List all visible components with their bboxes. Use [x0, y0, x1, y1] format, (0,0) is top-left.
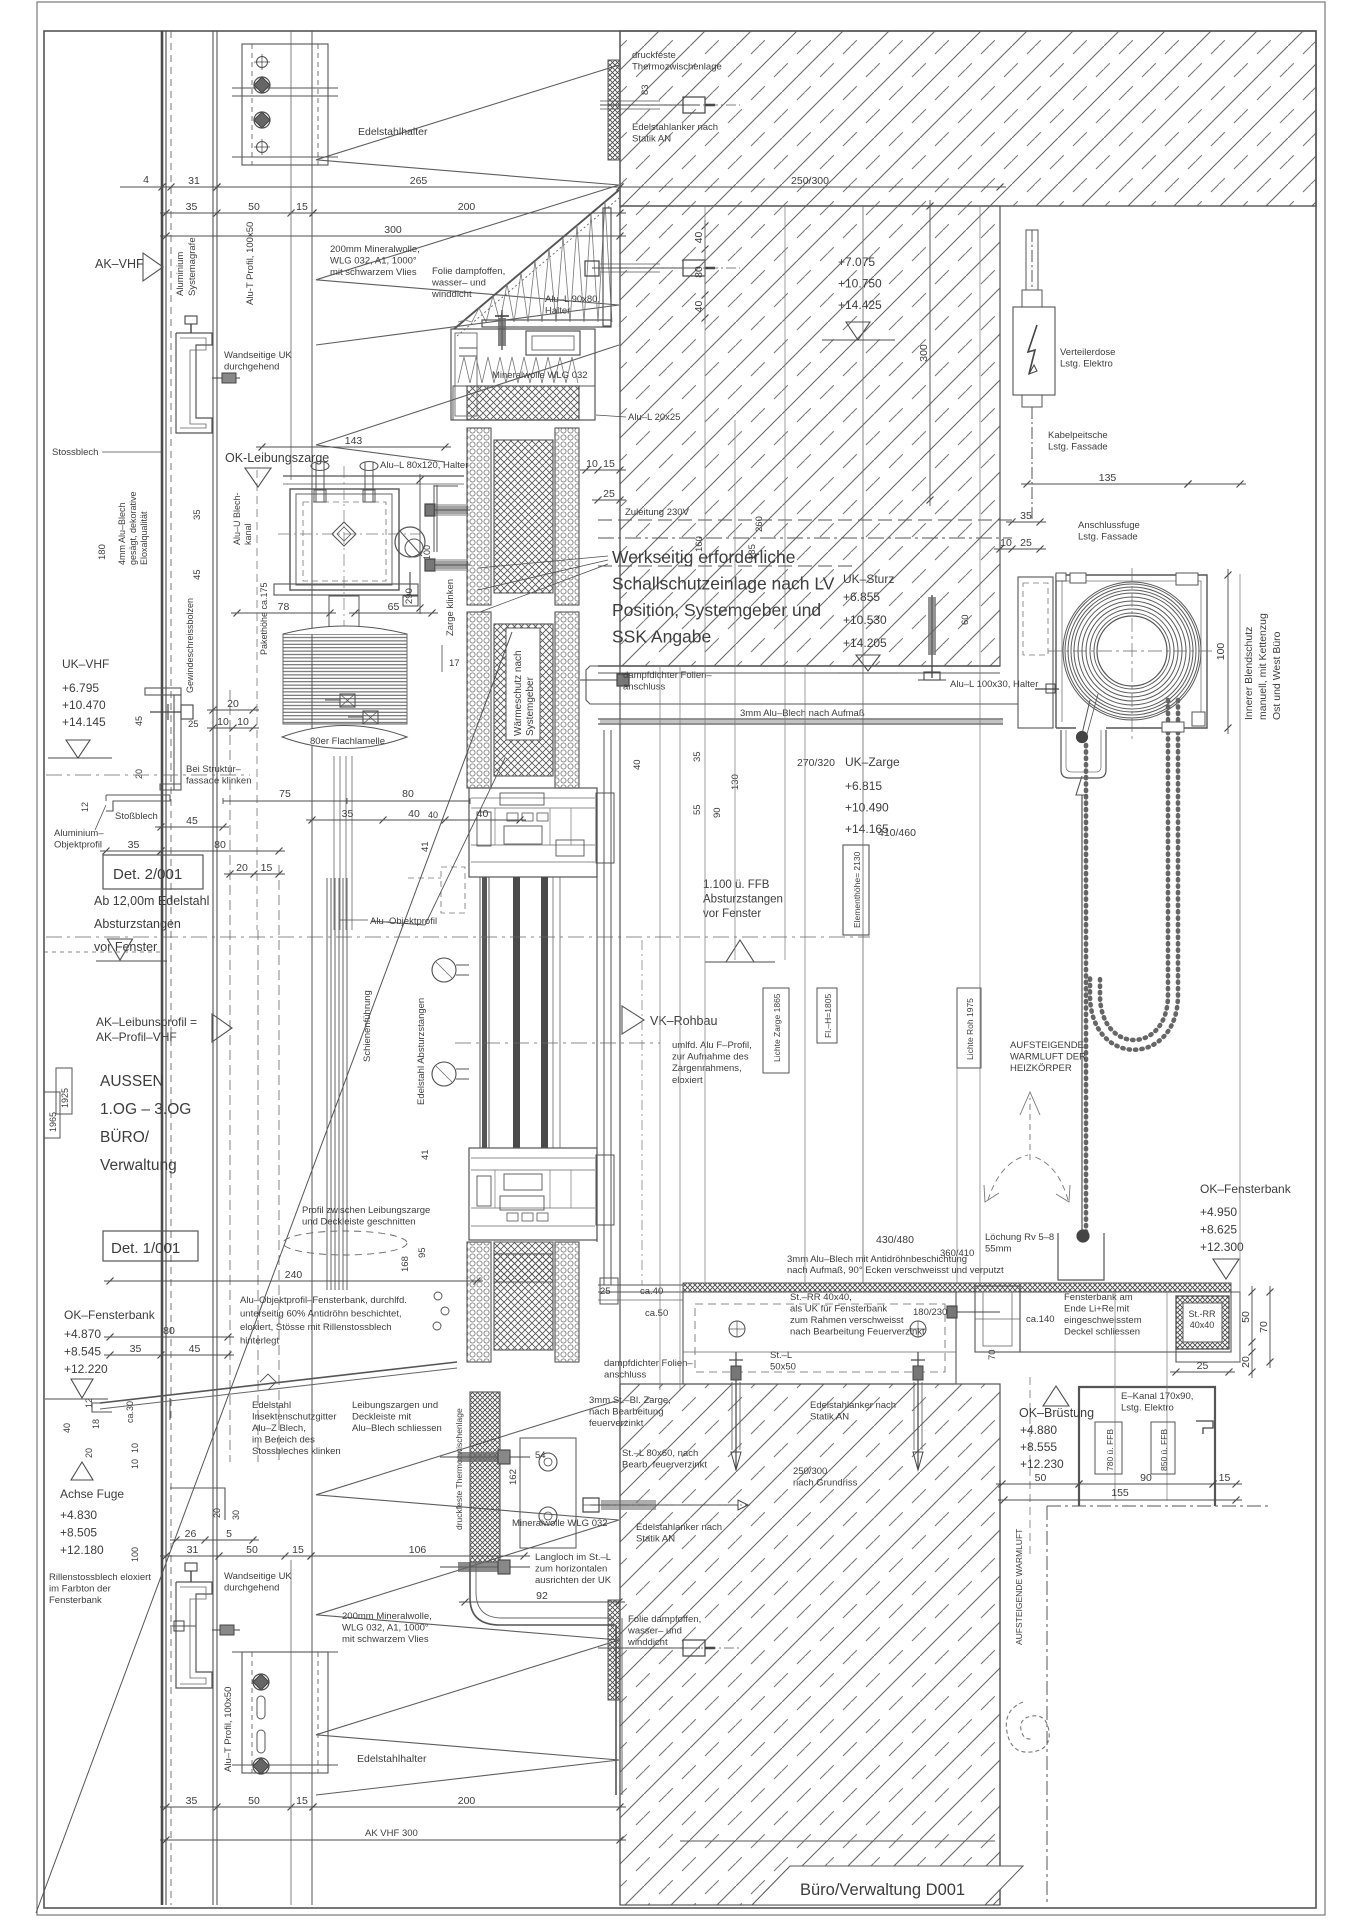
clamp detail right of box: [395, 527, 425, 557]
substructure depth line: [290, 31, 292, 480]
svg-text:41: 41: [420, 1149, 431, 1160]
svg-text:55: 55: [692, 804, 703, 815]
bracket bolts on zarge top: [311, 462, 329, 471]
svg-text:Alu–U Blech-: Alu–U Blech-: [232, 492, 242, 545]
svg-text:dampfdichter Folien–: dampfdichter Folien–: [623, 670, 712, 681]
svg-text:Fensterbank: Fensterbank: [49, 1595, 102, 1606]
screw through bracket plate: [501, 310, 503, 350]
svg-text:+6.815: +6.815: [845, 779, 882, 793]
svg-text:Alu–L 20x25: Alu–L 20x25: [628, 412, 680, 423]
svg-text:Löchung Rv 5–8: Löchung Rv 5–8: [985, 1232, 1054, 1243]
parapet cladding verticals: [615, 1625, 617, 1795]
svg-text:41: 41: [420, 841, 431, 852]
svg-text:Position, Systemgeber und: Position, Systemgeber und: [612, 600, 821, 620]
svg-text:Folie dampfoffen,: Folie dampfoffen,: [432, 266, 505, 277]
Det. 2/001 box: [103, 855, 203, 889]
dim 17: [441, 645, 443, 672]
lintel vertical dim 300: [929, 200, 931, 506]
sill left connection to window: [598, 1284, 683, 1286]
dim row 35/50/15: [160, 212, 319, 214]
svg-text:31: 31: [187, 1544, 199, 1556]
E-Kanal box: [1078, 1387, 1080, 1506]
svg-text:50: 50: [246, 1544, 258, 1556]
svg-text:410/460: 410/460: [878, 827, 916, 839]
svg-text:80er Flachlamelle: 80er Flachlamelle: [310, 736, 385, 747]
sill Alu-Blech hatched strip: [683, 1283, 1231, 1292]
svg-text:780 ü. FFB: 780 ü. FFB: [1105, 1429, 1115, 1471]
Absturzstange rod bottom: [432, 1062, 456, 1086]
svg-text:als UK für Fensterbank: als UK für Fensterbank: [790, 1304, 887, 1315]
svg-text:100: 100: [130, 1547, 140, 1562]
svg-text:250/300: 250/300: [791, 175, 829, 187]
svg-text:Verteilerdose: Verteilerdose: [1060, 347, 1115, 358]
svg-text:nach Aufmaß, 90° Ecken verschw: nach Aufmaß, 90° Ecken verschweisst und …: [787, 1265, 1004, 1276]
svg-text:5: 5: [226, 1528, 232, 1540]
leader fan: [478, 556, 608, 568]
VK-Rohbau: [622, 1006, 644, 1034]
svg-text:Bearb. feuerverzinkt: Bearb. feuerverzinkt: [622, 1460, 707, 1471]
soffit Alu-Blech band: [598, 665, 1000, 667]
svg-text:Edelstahlhalter: Edelstahlhalter: [357, 1753, 427, 1765]
frame anchor bolt right mid: [580, 679, 625, 681]
Edelstahlhalter bracket bottom: [242, 1652, 328, 1773]
threaded studs on zarge: [340, 694, 355, 707]
head bolt vertical: [931, 595, 933, 678]
dashed detail box left of frame: [441, 867, 465, 913]
Edelstahlanker top slab: [600, 104, 700, 106]
svg-text:Pakethöhe ca.175: Pakethöhe ca.175: [259, 582, 269, 655]
svg-text:75: 75: [279, 788, 291, 800]
svg-text:+12.300: +12.300: [1200, 1240, 1244, 1254]
Stossblech angle mid: [106, 795, 170, 811]
insulation boundary line: [311, 31, 313, 1905]
svg-text:Systemgeber: Systemgeber: [525, 676, 536, 736]
frame hard insulation core: [494, 1254, 553, 1350]
svg-text:80: 80: [214, 839, 226, 851]
svg-text:265: 265: [410, 175, 428, 187]
svg-text:20: 20: [134, 769, 144, 779]
Edelstahlhalter bracket top: [242, 44, 328, 165]
svg-text:200mm Mineralwolle,: 200mm Mineralwolle,: [342, 1611, 432, 1622]
dim 300: [160, 235, 626, 237]
svg-text:35: 35: [130, 1343, 142, 1355]
long diagonal leader line: [36, 632, 512, 1913]
svg-text:55mm: 55mm: [985, 1244, 1011, 1255]
svg-text:+4.880: +4.880: [1020, 1423, 1057, 1437]
frame anchor bolts left: [430, 509, 470, 511]
svg-text:45: 45: [134, 716, 144, 726]
cladding dashed joint line: [170, 31, 172, 1905]
svg-text:Elementhöhe= 2130: Elementhöhe= 2130: [852, 851, 862, 928]
svg-text:WLG 032, A1, 1000°: WLG 032, A1, 1000°: [342, 1623, 429, 1634]
concrete lintel column (hatched): [620, 206, 1000, 666]
svg-text:Insektenschutzgitter: Insektenschutzgitter: [252, 1412, 337, 1423]
lightning bolt: [1028, 325, 1037, 374]
svg-text:135: 135: [1099, 472, 1117, 484]
svg-text:SSK Angabe: SSK Angabe: [612, 627, 711, 647]
dim row 4/31: [156, 186, 223, 188]
svg-text:Stossbleches klinken: Stossbleches klinken: [252, 1446, 341, 1457]
svg-text:WARMLUFT DER: WARMLUFT DER: [1010, 1052, 1086, 1063]
sloped sealing membrane head: [454, 190, 619, 329]
svg-text:gesägt, dekorative: gesägt, dekorative: [128, 491, 138, 565]
svg-text:vor Fenster: vor Fenster: [703, 908, 761, 920]
svg-text:Edelstahlanker nach: Edelstahlanker nach: [636, 1522, 722, 1533]
svg-text:35: 35: [342, 808, 354, 820]
svg-text:fassade klinken: fassade klinken: [186, 776, 251, 787]
svg-text:eloxiert: eloxiert: [672, 1075, 703, 1086]
svg-text:WLG 032, A1, 1000°: WLG 032, A1, 1000°: [330, 256, 417, 267]
bottom hard pad: [494, 1242, 553, 1282]
svg-text:+14.145: +14.145: [62, 715, 106, 729]
svg-text:50x50: 50x50: [770, 1362, 796, 1373]
FFB boxes: [1095, 1422, 1122, 1474]
svg-text:Leibungszargen und: Leibungszargen und: [352, 1400, 438, 1411]
svg-text:15: 15: [603, 458, 615, 470]
sill box right: [1020, 1292, 1231, 1352]
svg-text:130: 130: [730, 774, 741, 790]
svg-text:St.–L: St.–L: [770, 1350, 792, 1361]
svg-text:200: 200: [458, 1795, 476, 1807]
cable dash-dot: [1031, 230, 1033, 290]
svg-text:25: 25: [1020, 537, 1032, 549]
svg-text:Absturzstangen: Absturzstangen: [94, 917, 181, 931]
frame soft insulation right column: [555, 612, 579, 788]
chain wheel bracket: [1061, 730, 1106, 778]
svg-text:300: 300: [918, 344, 930, 362]
svg-text:Alu–L 80x120, Halter: Alu–L 80x120, Halter: [380, 460, 468, 471]
svg-text:180/230: 180/230: [913, 1307, 947, 1318]
svg-text:AK–Leibunsprofil =: AK–Leibunsprofil =: [96, 1015, 197, 1029]
svg-text:+8.555: +8.555: [1020, 1440, 1057, 1454]
svg-text:nach Bearbeitung Feuerverzinkt: nach Bearbeitung Feuerverzinkt: [790, 1327, 925, 1338]
svg-text:durchgehend: durchgehend: [224, 1583, 279, 1594]
heating spiral symbol: [1006, 1702, 1049, 1752]
rotated dim boxes: [763, 988, 789, 1073]
svg-text:mit schwarzem Vlies: mit schwarzem Vlies: [342, 1634, 429, 1645]
svg-text:+10.530: +10.530: [843, 613, 887, 627]
svg-text:40: 40: [408, 808, 420, 820]
svg-text:3mm St.–Bl. Zarge,: 3mm St.–Bl. Zarge,: [589, 1395, 671, 1406]
svg-text:Statik AN: Statik AN: [636, 1534, 675, 1545]
svg-text:unterseitig 60% Antidröhn besc: unterseitig 60% Antidröhn beschichtet,: [240, 1309, 402, 1320]
leader to Alu-Objektprofil: [425, 758, 505, 925]
guide dashed verticals: [229, 690, 231, 1462]
svg-text:ca.140: ca.140: [1026, 1314, 1055, 1325]
svg-text:Innerer Blendschutz: Innerer Blendschutz: [1243, 627, 1255, 720]
svg-text:ausrichten der UK: ausrichten der UK: [535, 1575, 612, 1586]
svg-text:Zargenrahmens,: Zargenrahmens,: [672, 1063, 742, 1074]
svg-text:zum horizontalen: zum horizontalen: [535, 1564, 607, 1575]
svg-text:25: 25: [188, 719, 199, 730]
bracket anchor bolt into concrete: [592, 267, 680, 269]
svg-text:10: 10: [217, 716, 229, 728]
sill anchors below: [735, 1352, 737, 1468]
mineral wool zigzag bottom band: [316, 1400, 619, 1795]
insect grid detail: [169, 1398, 171, 1420]
glass pane 2 (mid): [513, 877, 520, 1148]
svg-text:+14.425: +14.425: [838, 298, 882, 312]
svg-text:300: 300: [384, 224, 402, 236]
roller housing box: [1056, 575, 1207, 728]
frame soft insulation left column: [467, 1242, 491, 1362]
svg-text:+8.625: +8.625: [1200, 1223, 1237, 1237]
horizontal dash-dot mid window: [46, 936, 870, 938]
St-RR 40x40 end box: [1176, 1296, 1229, 1349]
svg-text:83: 83: [640, 84, 651, 95]
svg-text:nach Grundriss: nach Grundriss: [793, 1478, 858, 1489]
Edelstahlanker mid (lintel): [600, 267, 700, 269]
svg-text:Wandseitige UK: Wandseitige UK: [224, 1571, 292, 1582]
svg-text:Edelstahl Absturzstangen: Edelstahl Absturzstangen: [416, 998, 427, 1105]
svg-text:20: 20: [227, 698, 239, 710]
chain slot detail: [1162, 722, 1184, 732]
mid bolt detail bottom bracket: [170, 1625, 196, 1627]
bottom dims: [160, 1555, 317, 1557]
druckfeste Thermozwischenlage column bottom: [470, 1392, 500, 1562]
svg-text:E–Kanal 170x90,: E–Kanal 170x90,: [1121, 1391, 1193, 1402]
svg-text:Systemagrafe: Systemagrafe: [187, 237, 198, 296]
chain holder at sill: [1058, 1233, 1104, 1280]
svg-text:Ende Li+Re mit: Ende Li+Re mit: [1064, 1304, 1130, 1315]
glazing unit outer lines: [479, 877, 481, 1148]
svg-text:250/300: 250/300: [793, 1466, 827, 1477]
frame soft insulation right column: [555, 428, 579, 605]
svg-text:zum Rahmen verschweisst: zum Rahmen verschweisst: [790, 1315, 904, 1326]
svg-text:155: 155: [1111, 1487, 1129, 1499]
sill right bottom step: [1176, 1292, 1240, 1362]
lintel vertical dim chain 40/80/40: [704, 220, 706, 324]
svg-text:100: 100: [1215, 643, 1227, 661]
wall bracket bottom: [176, 1582, 212, 1688]
svg-text:druckfeste: druckfeste: [632, 50, 676, 61]
svg-text:10: 10: [237, 716, 249, 728]
svg-text:80: 80: [693, 266, 705, 278]
interior room boundary dashed: [1046, 1506, 1048, 1905]
extension verticals through drawing: [862, 206, 864, 1283]
svg-text:Langloch im St.–L: Langloch im St.–L: [535, 1552, 611, 1563]
svg-text:Gewindeschreissbolzen: Gewindeschreissbolzen: [185, 598, 195, 693]
blind fabric tangent: [1082, 700, 1090, 734]
svg-text:AUFSTEIGENDE WARMLUFT: AUFSTEIGENDE WARMLUFT: [1014, 1529, 1024, 1645]
svg-text:15: 15: [292, 1544, 304, 1556]
svg-text:40x40: 40x40: [1190, 1320, 1215, 1330]
svg-text:wasser– und: wasser– und: [431, 278, 486, 289]
head frame left column: [455, 333, 477, 416]
svg-text:50: 50: [1240, 1311, 1252, 1323]
svg-text:Aluminium–: Aluminium–: [54, 828, 104, 839]
svg-text:4: 4: [143, 174, 149, 186]
substructure rail (Alu-T) line pair: [212, 31, 214, 1905]
svg-text:25: 25: [1197, 1360, 1209, 1372]
glass pane 1: [482, 877, 487, 1148]
Det. 1/001 box: [103, 1231, 198, 1261]
frame hard insulation core: [494, 624, 553, 776]
svg-text:45: 45: [189, 1343, 201, 1355]
svg-text:Ost und West Büro: Ost und West Büro: [1271, 631, 1283, 720]
svg-text:AUFSTEIGENDE: AUFSTEIGENDE: [1010, 1040, 1084, 1051]
glass pane 3: [541, 877, 548, 1148]
svg-text:Alu–Blech schliessen: Alu–Blech schliessen: [352, 1423, 442, 1434]
svg-text:26: 26: [185, 1528, 197, 1540]
frame soft insulation right column: [555, 1242, 579, 1362]
svg-text:Det. 1/001: Det. 1/001: [111, 1240, 180, 1257]
svg-text:80: 80: [163, 1325, 175, 1337]
svg-text:Mineralwolle WLG 032: Mineralwolle WLG 032: [512, 1518, 608, 1529]
svg-text:35: 35: [186, 1795, 198, 1807]
svg-text:Profil zwischen Leibungszarge: Profil zwischen Leibungszarge: [302, 1205, 430, 1216]
svg-text:50: 50: [248, 1795, 260, 1807]
svg-text:Statik AN: Statik AN: [632, 134, 671, 145]
svg-text:UK–VHF: UK–VHF: [62, 657, 109, 671]
facade cladding sheet (4mm Alu): [161, 31, 164, 1905]
svg-text:winddicht: winddicht: [431, 289, 472, 300]
svg-text:Lstg. Elektro: Lstg. Elektro: [1060, 359, 1113, 370]
lamelle bottom lens: [282, 726, 407, 749]
svg-text:10: 10: [586, 458, 598, 470]
bottom flange plate: [274, 584, 418, 595]
anchor bolts bottom column: [440, 1456, 530, 1458]
svg-text:10: 10: [130, 1443, 140, 1453]
svg-text:Alu–L 100x30, Halter: Alu–L 100x30, Halter: [950, 679, 1038, 690]
svg-text:St.-RR: St.-RR: [1189, 1309, 1217, 1319]
svg-text:+4.870: +4.870: [64, 1327, 101, 1341]
svg-text:60: 60: [960, 614, 971, 625]
svg-text:Edelstahlanker nach: Edelstahlanker nach: [810, 1400, 896, 1411]
chain left strand: [1084, 745, 1089, 1232]
svg-text:eloxiert, Stösse mit Rillensto: eloxiert, Stösse mit Rillenstossblech: [240, 1322, 392, 1333]
svg-text:20: 20: [212, 1508, 222, 1518]
title Buero/Verwaltung D001 white band: [752, 1866, 1023, 1905]
frame soft insulation left column: [467, 612, 491, 788]
svg-text:40: 40: [632, 759, 643, 770]
svg-text:Fensterbank am: Fensterbank am: [1064, 1292, 1133, 1303]
svg-text:Stossblech: Stossblech: [52, 447, 98, 458]
svg-text:Ab 12,00m Edelstahl: Ab 12,00m Edelstahl: [94, 894, 209, 908]
svg-text:Zuleitung 230V: Zuleitung 230V: [625, 507, 690, 518]
svg-text:AK VHF 300: AK VHF 300: [365, 1828, 418, 1839]
Verteilerdose electro box: [1013, 307, 1055, 395]
svg-text:BÜRO/: BÜRO/: [100, 1128, 150, 1146]
svg-text:40: 40: [428, 810, 438, 820]
svg-text:im Bereich des: im Bereich des: [252, 1435, 315, 1446]
svg-text:+4.830: +4.830: [60, 1508, 97, 1522]
wall bracket mid (UK-VHF): [145, 688, 181, 695]
svg-text:und Deckleiste geschnitten: und Deckleiste geschnitten: [302, 1217, 416, 1228]
svg-text:UK–Sturz: UK–Sturz: [843, 572, 894, 586]
concrete slab top (hatched): [620, 31, 1316, 206]
Z flashing bottom curve: [470, 1562, 614, 1625]
svg-text:+7.075: +7.075: [838, 255, 875, 269]
svg-text:anschluss: anschluss: [604, 1370, 646, 1381]
svg-text:Fl.–H=1805: Fl.–H=1805: [823, 994, 833, 1038]
svg-text:70: 70: [987, 1349, 998, 1360]
svg-text:25: 25: [600, 1286, 611, 1297]
dim 200: [307, 212, 626, 214]
svg-text:Wärmeschutz nach: Wärmeschutz nach: [513, 650, 524, 736]
Paket stem: [329, 596, 359, 628]
svg-text:Wandseitige UK: Wandseitige UK: [224, 350, 292, 361]
sill frame box left: [683, 1292, 956, 1384]
svg-text:HEIZKÖRPER: HEIZKÖRPER: [1010, 1063, 1072, 1074]
anchor thermo pad top: [608, 60, 620, 160]
channel bolt: [1035, 688, 1059, 690]
svg-text:95: 95: [417, 1247, 428, 1258]
svg-text:winddicht: winddicht: [627, 1637, 668, 1648]
svg-text:70: 70: [1258, 1321, 1270, 1333]
svg-text:OK–Fensterbank: OK–Fensterbank: [1200, 1182, 1292, 1196]
svg-text:AK–Profil–VHF: AK–Profil–VHF: [96, 1030, 177, 1044]
svg-text:wasser– und: wasser– und: [627, 1626, 682, 1637]
svg-text:Alu-T Profil, 100x50: Alu-T Profil, 100x50: [245, 222, 256, 305]
svg-text:Schallschutzeinlage nach LV: Schallschutzeinlage nach LV: [612, 574, 835, 594]
svg-text:40: 40: [693, 301, 705, 313]
lamelle pendant lines: [333, 756, 335, 930]
svg-text:Zarge klinken: Zarge klinken: [445, 579, 456, 636]
droplet symbols: [434, 1292, 442, 1300]
sill mid connector: [975, 1286, 1020, 1352]
svg-text:mit schwarzem Vlies: mit schwarzem Vlies: [330, 267, 417, 278]
blind side channel left: [1018, 577, 1053, 728]
svg-text:+10.470: +10.470: [62, 698, 106, 712]
window inner face lines: [596, 788, 598, 1242]
concrete parapet bottom (hatched): [620, 1384, 1000, 1905]
svg-text:Alu–T Profil, 100x50: Alu–T Profil, 100x50: [223, 1687, 234, 1772]
svg-text:UK–Zarge: UK–Zarge: [845, 755, 900, 769]
svg-text:kanal: kanal: [243, 523, 253, 545]
svg-text:200mm Mineralwolle,: 200mm Mineralwolle,: [330, 244, 420, 255]
svg-text:290: 290: [404, 588, 415, 604]
svg-text:Aluminium: Aluminium: [175, 252, 186, 296]
dims 10/15/25: [580, 469, 626, 471]
svg-text:850 ü. FFB: 850 ü. FFB: [1159, 1429, 1169, 1471]
svg-text:30: 30: [231, 1510, 241, 1520]
svg-text:1.OG – 3.OG: 1.OG – 3.OG: [100, 1101, 191, 1118]
svg-text:54: 54: [535, 1450, 546, 1461]
svg-text:35: 35: [186, 201, 198, 213]
svg-text:65: 65: [388, 601, 400, 613]
svg-text:AUSSEN: AUSSEN: [100, 1073, 164, 1090]
svg-text:+10.490: +10.490: [845, 801, 889, 815]
druckfeste Thermozwischenlage bar: [467, 386, 579, 420]
svg-text:25: 25: [603, 488, 615, 500]
bolt through cladding mid: [150, 711, 181, 713]
bolt on top bracket: [185, 316, 197, 324]
warm air arrows: [1029, 1098, 1031, 1160]
svg-text:Alu–Objektprofil–Fensterbank,: Alu–Objektprofil–Fensterbank, durchlfd.: [240, 1295, 407, 1306]
svg-text:Schienenführung: Schienenführung: [362, 990, 373, 1062]
svg-text:zur Aufnahme des: zur Aufnahme des: [672, 1052, 749, 1063]
svg-text:+8.505: +8.505: [60, 1526, 97, 1540]
svg-text:St.–L 80x60, nach: St.–L 80x60, nach: [622, 1448, 698, 1459]
Alu-L 90x80 Halter bracket: [603, 208, 611, 326]
80er Flachlamelle package: [283, 634, 407, 724]
svg-text:Det. 2/001: Det. 2/001: [113, 866, 182, 883]
svg-text:OK–Brüstung: OK–Brüstung: [1019, 1406, 1094, 1420]
svg-text:manuell, mit Kettenzug: manuell, mit Kettenzug: [1257, 613, 1269, 720]
chain pull cord with arrow: [1081, 795, 1083, 1232]
svg-text:OK–Fensterbank: OK–Fensterbank: [64, 1308, 156, 1322]
svg-text:Lichte Zarge 1865: Lichte Zarge 1865: [772, 993, 782, 1062]
head frame outer profile: [451, 329, 595, 420]
svg-text:Alu–L 90x80,: Alu–L 90x80,: [545, 294, 600, 305]
svg-text:nach Bearbeitung: nach Bearbeitung: [589, 1407, 663, 1418]
slotted holes bottom bracket: [257, 1696, 265, 1719]
E-Kanal inner detail hook: [1196, 1421, 1213, 1434]
svg-text:4mm Alu–Blech: 4mm Alu–Blech: [117, 502, 127, 565]
chain right strand loop: [1100, 700, 1168, 1040]
svg-text:Lichte Roh 1975: Lichte Roh 1975: [965, 998, 975, 1060]
